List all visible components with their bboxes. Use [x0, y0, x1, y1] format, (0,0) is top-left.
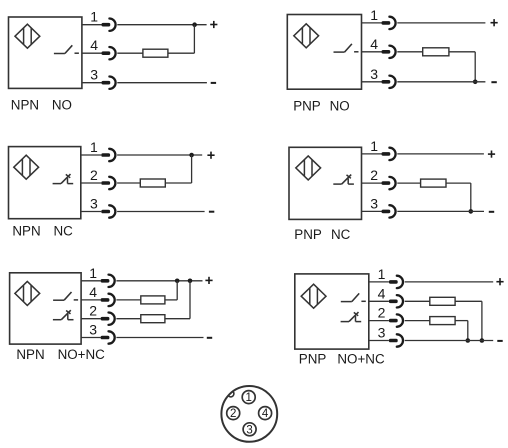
connector plug symbol pin 1 (NPN NO): [102, 19, 116, 31]
plus terminal (PNP NO): [491, 19, 498, 26]
connector pin 3 circle: [243, 423, 256, 436]
connector plug symbol pin 2 (PNP NC): [382, 177, 396, 189]
wire load to dropper (PNP NO): [449, 51, 475, 53]
wire dropper to junction (PNP NC): [470, 183, 472, 211]
svg-text:3: 3: [378, 325, 386, 341]
sensor body box PNP NO+NC: [295, 274, 369, 349]
svg-text:3: 3: [89, 322, 97, 338]
svg-text:3: 3: [370, 195, 378, 211]
wire pin2 to load (PNP NC): [397, 182, 420, 184]
wire load2 to dropper2 (PNP NO+NC): [455, 320, 468, 322]
connector plug symbol pin 2 (NPN NC): [101, 177, 115, 189]
sensor body box PNP NO: [287, 15, 361, 90]
connector plug symbol pin 4 (NPN NO+NC): [101, 294, 115, 306]
wire pin1 to + (NPN NO+NC): [116, 280, 202, 282]
connector keying notch: [228, 391, 234, 397]
pin 3 stub wire (NPN NC): [81, 211, 102, 213]
NO contact switch PNP NO: [334, 44, 359, 52]
svg-text:4: 4: [370, 36, 378, 52]
plus terminal (PNP NO+NC): [496, 278, 503, 285]
connector plug symbol pin 3 (NPN NO): [102, 77, 116, 89]
pin 2 stub wire (NPN NC): [81, 182, 102, 184]
svg-text:1: 1: [90, 139, 98, 155]
pin 2 stub wire (PNP NO+NC): [369, 320, 389, 322]
wire pin4 to load (NPN NO+NC): [116, 299, 140, 301]
connector plug symbol pin 1 (PNP NC): [382, 148, 396, 160]
wire riser2 to junction (NPN NO+NC): [189, 281, 191, 319]
svg-text:4: 4: [262, 408, 269, 420]
proximity sensor symbol NPN NO: [15, 24, 40, 48]
connector plug symbol pin 3 (PNP NC): [382, 205, 396, 217]
pin 3 stub wire (NPN NO+NC): [81, 337, 101, 339]
wire dropper1 to junction (PNP NO+NC): [481, 301, 483, 340]
svg-text:1: 1: [370, 7, 378, 23]
minus terminal (NPN NO+NC): [207, 337, 212, 339]
connector plug symbol pin 4 (NPN NO): [102, 47, 116, 59]
svg-text:NC: NC: [54, 224, 74, 239]
svg-text:3: 3: [90, 196, 98, 212]
proximity sensor symbol PNP NC: [296, 156, 321, 180]
junction dot left on - line (PNP NO+NC): [466, 338, 471, 343]
minus terminal (NPN NC): [209, 211, 214, 213]
load resistor RL1 (PNP NC): [421, 179, 446, 187]
wire pin1 to + (PNP NO): [397, 22, 485, 24]
svg-text:2: 2: [378, 305, 386, 321]
junction dot left on + line (NPN NO+NC): [175, 279, 180, 284]
wire pin1 to + (PNP NO+NC): [405, 281, 494, 283]
wire pin4 to load (NPN NO): [117, 52, 143, 54]
proximity sensor symbol PNP NO: [294, 24, 319, 48]
minus terminal (NPN NO): [211, 82, 216, 84]
proximity sensor symbol NPN NC: [14, 155, 39, 179]
junction dot on + line (NPN NO): [192, 22, 197, 27]
wire pin2 to load (NPN NO+NC): [116, 318, 140, 320]
pin 1 stub wire (PNP NC): [362, 153, 382, 155]
plus terminal (NPN NO): [210, 21, 217, 28]
wire dropper to junction (PNP NO): [474, 52, 476, 82]
connector plug symbol pin 3 (NPN NO+NC): [101, 331, 115, 343]
pin 4 stub wire (NPN NO): [82, 52, 102, 54]
wire pin2 to load (NPN NC): [117, 182, 140, 184]
pin 3 stub wire (PNP NO): [362, 81, 382, 83]
pin 1 stub wire (PNP NO+NC): [369, 281, 389, 283]
wire load1 to riser1 (NPN NO+NC): [165, 299, 177, 301]
junction dot on + line (NPN NC): [189, 153, 194, 158]
sensor body box NPN NC: [9, 147, 81, 219]
svg-text:1: 1: [245, 392, 251, 404]
M12 connector face outline: [221, 386, 277, 442]
minus terminal (PNP NC): [489, 211, 494, 213]
junction dot on - line (PNP NC): [469, 209, 474, 214]
wire pin3 to - (PNP NO): [397, 81, 485, 83]
wire riser to junction (NPN NO): [193, 25, 195, 54]
connector plug symbol pin 3 (PNP NO): [382, 76, 396, 88]
junction dot right on + line (NPN NO+NC): [188, 279, 193, 284]
pin 1 stub wire (NPN NO+NC): [81, 280, 101, 282]
pin 3 stub wire (PNP NC): [362, 210, 382, 212]
connector plug symbol pin 1 (NPN NC): [101, 149, 115, 161]
svg-text:2: 2: [90, 167, 98, 183]
connector plug symbol pin 4 (PNP NO): [382, 46, 396, 58]
pin 4 stub wire (PNP NO+NC): [369, 300, 389, 302]
svg-text:1: 1: [378, 266, 386, 282]
wire pin3 to - (PNP NC): [397, 210, 484, 212]
minus terminal (PNP NO+NC): [497, 340, 502, 342]
svg-text:1: 1: [89, 265, 97, 281]
svg-text:3: 3: [246, 424, 252, 436]
svg-text:4: 4: [90, 37, 98, 53]
connector pin 4 circle: [259, 407, 272, 420]
wire riser to junction (NPN NC): [191, 155, 193, 183]
wire pin3 to - (PNP NO+NC): [405, 340, 494, 342]
proximity sensor symbol NPN NO+NC: [15, 281, 40, 305]
NO contact switch NPN NO+NC: [53, 292, 78, 300]
connector plug symbol pin 1 (PNP NO): [382, 17, 396, 29]
wire pin2 to load (PNP NO+NC): [405, 320, 430, 322]
pin 1 stub wire (NPN NC): [81, 154, 102, 156]
pin 4 stub wire (PNP NO): [362, 51, 382, 53]
wire pin1 to + (NPN NO): [117, 24, 206, 26]
load resistor RL1 (PNP NO+NC): [430, 297, 455, 305]
connector plug symbol pin 3 (NPN NC): [101, 205, 115, 217]
svg-text:2: 2: [370, 167, 378, 183]
wire pin1 to + (NPN NC): [117, 154, 202, 156]
NC contact switch NPN NC: [53, 174, 74, 184]
wire riser1 to junction (NPN NO+NC): [176, 281, 178, 300]
svg-text:1: 1: [370, 138, 378, 154]
svg-text:NPN: NPN: [12, 224, 40, 239]
pin 3 stub wire (PNP NO+NC): [369, 340, 389, 342]
svg-text:NO+NC: NO+NC: [58, 347, 106, 362]
connector plug symbol pin 2 (PNP NO+NC): [389, 314, 403, 326]
svg-text:PNP: PNP: [293, 99, 321, 114]
pin 1 stub wire (NPN NO): [82, 24, 102, 26]
svg-text:1: 1: [90, 9, 98, 25]
NO contact switch PNP NO+NC: [341, 293, 366, 301]
svg-text:4: 4: [89, 284, 97, 300]
wire pin3 to - (NPN NC): [117, 211, 205, 213]
junction dot on - line (PNP NO): [473, 80, 478, 85]
load resistor RL1 (NPN NC): [140, 179, 165, 187]
pin 4 stub wire (NPN NO+NC): [81, 299, 101, 301]
load resistor RL1 (NPN NO): [143, 49, 168, 57]
svg-text:4: 4: [378, 285, 386, 301]
pin 2 stub wire (NPN NO+NC): [81, 318, 101, 320]
wire pin3 to - (NPN NO): [117, 82, 207, 84]
sensor body box NPN NO+NC: [10, 273, 82, 344]
svg-text:NPN: NPN: [16, 347, 44, 362]
load resistor RL1 (PNP NO): [423, 48, 449, 56]
connector pin 1 circle: [242, 391, 255, 404]
wire load to riser (NPN NO): [168, 52, 195, 54]
pin 2 stub wire (PNP NC): [362, 182, 382, 184]
sensor body box PNP NC: [289, 147, 362, 219]
sensor body box NPN NO: [9, 17, 82, 88]
svg-text:PNP: PNP: [299, 352, 327, 367]
connector plug symbol pin 3 (PNP NO+NC): [389, 334, 403, 346]
NC contact switch PNP NC: [333, 175, 354, 185]
plus terminal (PNP NC): [488, 151, 495, 158]
connector pin 2 circle: [227, 407, 240, 420]
pin 3 stub wire (NPN NO): [82, 82, 102, 84]
connector plug symbol pin 1 (PNP NO+NC): [389, 276, 403, 288]
wire load to dropper (PNP NC): [446, 182, 471, 184]
svg-text:2: 2: [89, 303, 97, 319]
wire pin1 to + (PNP NC): [397, 153, 484, 155]
svg-text:3: 3: [90, 67, 98, 83]
load resistor RL2 (NPN NO+NC): [141, 315, 165, 323]
NO contact switch NPN NO: [54, 45, 79, 53]
minus terminal (PNP NO): [491, 81, 496, 83]
load resistor RL2 (PNP NO+NC): [430, 317, 455, 325]
wire load to riser (NPN NC): [165, 182, 191, 184]
svg-text:NPN: NPN: [11, 98, 39, 113]
wire pin4 to load (PNP NO+NC): [405, 300, 430, 302]
wire load1 to dropper1 (PNP NO+NC): [455, 300, 482, 302]
wire pin4 to load (PNP NO): [397, 51, 422, 53]
svg-text:NO: NO: [52, 98, 72, 113]
pin 1 stub wire (PNP NO): [362, 22, 382, 24]
wire dropper2 to junction (PNP NO+NC): [467, 321, 469, 341]
NC contact switch PNP NO+NC: [341, 312, 362, 322]
svg-text:3: 3: [370, 66, 378, 82]
junction dot right on - line (PNP NO+NC): [480, 338, 485, 343]
svg-text:PNP: PNP: [294, 227, 322, 242]
connector plug symbol pin 1 (NPN NO+NC): [101, 275, 115, 287]
svg-text:NO: NO: [330, 99, 350, 114]
proximity sensor symbol PNP NO+NC: [301, 284, 326, 308]
wire pin3 to - (NPN NO+NC): [116, 337, 203, 339]
plus terminal (NPN NC): [207, 152, 214, 159]
svg-text:NC: NC: [331, 227, 351, 242]
svg-text:NO+NC: NO+NC: [337, 352, 385, 367]
wire load2 to riser2 (NPN NO+NC): [165, 318, 190, 320]
plus terminal (NPN NO+NC): [205, 277, 212, 284]
connector plug symbol pin 4 (PNP NO+NC): [389, 295, 403, 307]
NC contact switch NPN NO+NC: [53, 310, 74, 320]
connector plug symbol pin 2 (NPN NO+NC): [101, 313, 115, 325]
load resistor RL1 (NPN NO+NC): [141, 296, 165, 304]
svg-text:2: 2: [230, 408, 236, 420]
